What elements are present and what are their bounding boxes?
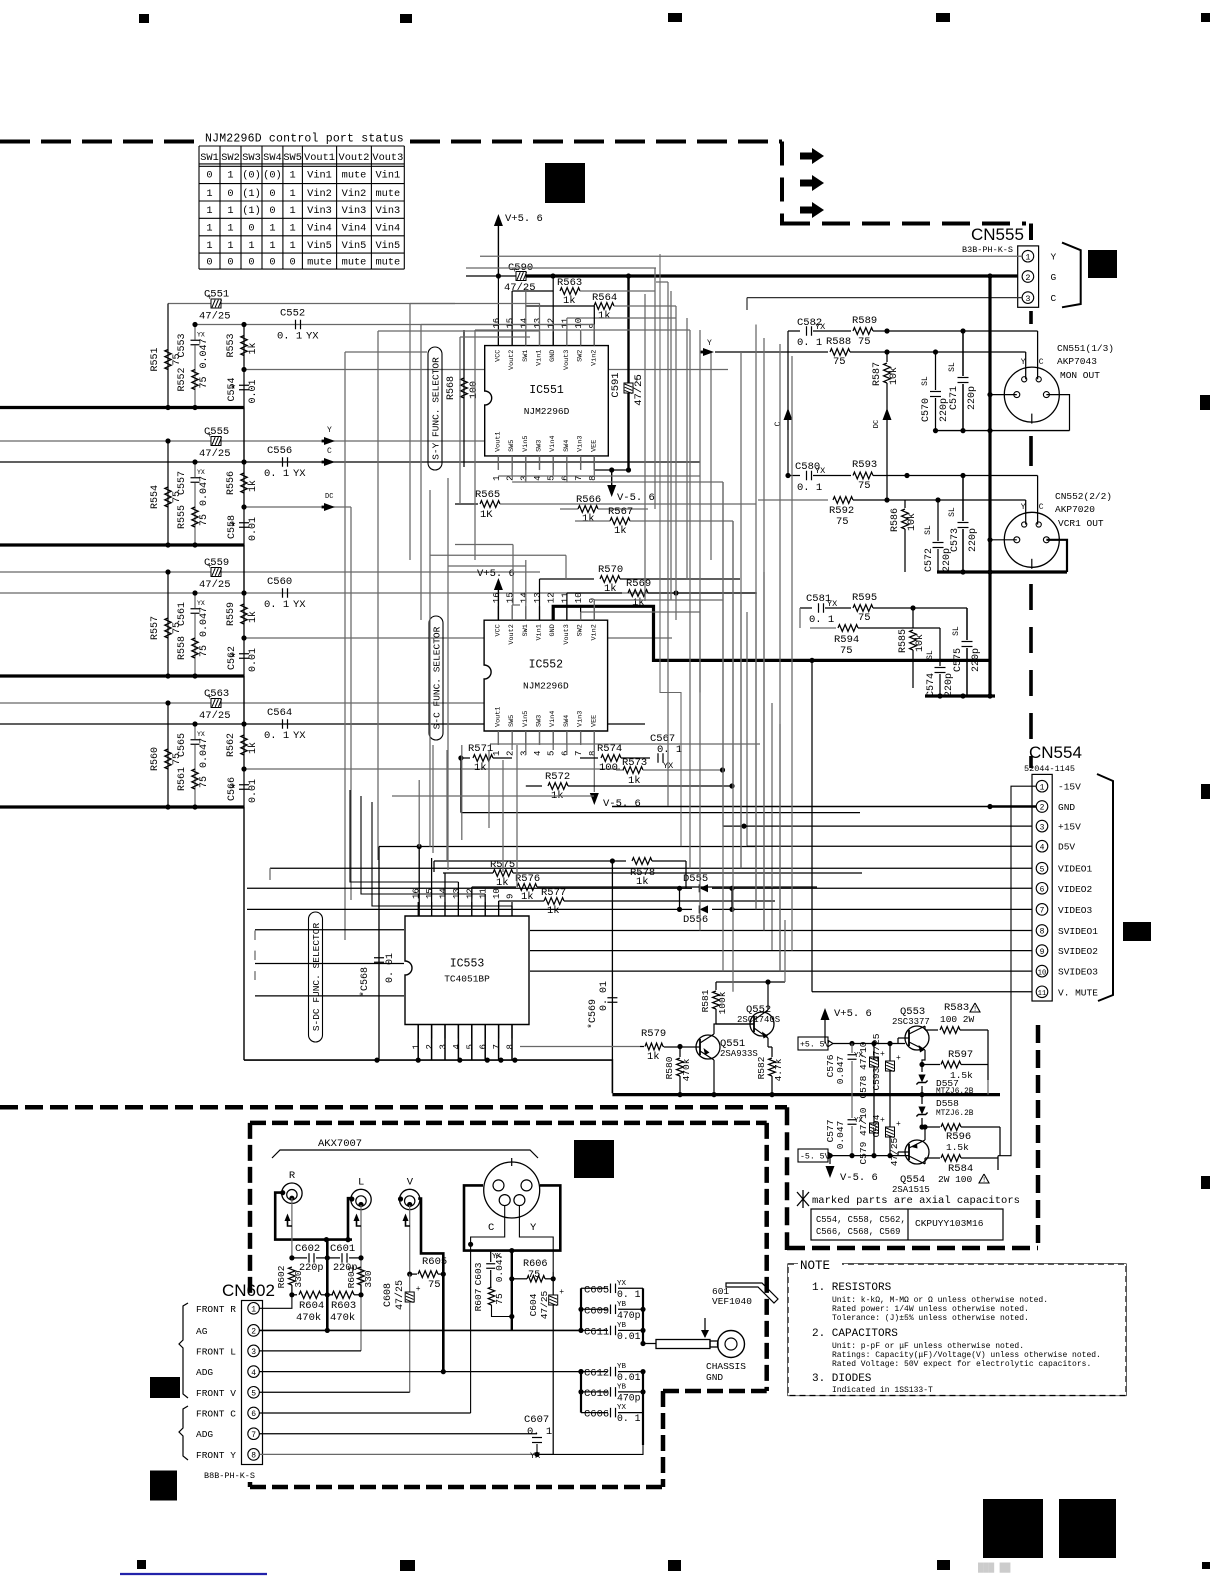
resistor R586: [904, 500, 906, 508]
wire input top y=703: [0, 702, 520, 704]
svg-text:SW5: SW5: [508, 715, 516, 727]
DIN connector CN551 MON OUT: [1004, 367, 1059, 422]
svg-text:0. 1: 0. 1: [617, 1413, 641, 1424]
svg-text:R: R: [289, 1170, 296, 1182]
svg-text:Vout1: Vout1: [494, 707, 502, 727]
svg-text:SW1: SW1: [522, 624, 530, 636]
capacitor C591 (axial electrolytic): [627, 276, 629, 470]
wire input tap y=369.5: [244, 369, 728, 371]
wire vertical x=733: [732, 521, 734, 786]
svg-text:AKP7043: AKP7043: [1057, 356, 1097, 367]
capacitor C578 47/10 (axial): [873, 1044, 875, 1059]
svg-text:R567: R567: [608, 506, 633, 518]
svg-text:0. 1: 0. 1: [797, 337, 822, 349]
warning triangle R584: [979, 1174, 989, 1183]
wire input mid y=324.5: [195, 324, 594, 326]
marked-parts border bottom: [787, 1246, 1038, 1251]
svg-text:8: 8: [506, 1044, 516, 1049]
capacitor C612: [581, 1371, 608, 1373]
CN602 brace lower: [179, 1406, 188, 1460]
svg-text:1: 1: [227, 223, 233, 235]
wire vertical x=711: [710, 352, 712, 560]
table grid: [199, 146, 404, 269]
section border dashed top-left: [0, 140, 203, 144]
svg-text:Y: Y: [707, 339, 712, 348]
svg-text:1: 1: [248, 240, 254, 252]
svg-text:CN554: CN554: [1029, 743, 1082, 762]
svg-text:1k: 1k: [636, 876, 649, 888]
svg-text:75: 75: [199, 776, 210, 788]
resistor R554: [167, 441, 169, 545]
svg-text:75: 75: [494, 1293, 505, 1305]
registration mark: [400, 1560, 415, 1571]
svg-text:Vin4: Vin4: [549, 711, 557, 727]
svg-text:VEE: VEE: [590, 715, 598, 727]
svg-text:R563: R563: [557, 277, 582, 289]
svg-text:YB: YB: [617, 1322, 627, 1330]
svg-text:0. 1: 0. 1: [264, 599, 289, 611]
svg-text:NOTE: NOTE: [800, 1259, 830, 1273]
svg-text:1: 1: [227, 169, 233, 181]
svg-text:0: 0: [269, 205, 275, 217]
svg-text:C562: C562: [227, 646, 238, 670]
capacitor stack C605/C609/C611: [580, 1288, 582, 1330]
svg-text:C574: C574: [926, 673, 937, 697]
wire pin11 riser: [566, 318, 568, 346]
svg-text:1: 1: [227, 240, 233, 252]
svg-text:CN602: CN602: [222, 1281, 275, 1300]
V jack signal: [409, 1205, 411, 1274]
svg-text:3: 3: [439, 1044, 449, 1049]
thick ground vertical x=990: [988, 276, 991, 696]
capacitor C594 47/25 (axial): [889, 1095, 891, 1128]
svg-text:1: 1: [227, 205, 233, 217]
svg-text:C578 47/10: C578 47/10: [858, 1041, 869, 1098]
svg-text:11: 11: [1038, 990, 1046, 998]
wire MON C drop: [1037, 331, 1039, 364]
wire vertical x=756: [755, 593, 757, 909]
svg-text:1k: 1k: [614, 525, 627, 537]
svg-text:Ratings: Capacity(μF)/Voltage(: Ratings: Capacity(μF)/Voltage(V) unless …: [832, 1351, 1101, 1360]
svg-text:mute: mute: [375, 257, 400, 269]
registration mark: [400, 14, 412, 23]
svg-text:DC: DC: [325, 493, 333, 501]
section border dashed mid-page: [0, 1105, 787, 1110]
svg-text:SVIDEO2: SVIDEO2: [1058, 946, 1098, 957]
wire vertical x=747: [746, 612, 748, 846]
power arrow V-5.6 IC551: [611, 470, 613, 488]
svg-text:R597: R597: [948, 1049, 973, 1061]
svg-text:C556: C556: [267, 445, 292, 457]
svg-text:2: 2: [251, 1328, 256, 1337]
svg-text:R580: R580: [664, 1056, 675, 1079]
capacitor C564: [282, 719, 284, 729]
svg-text:10: 10: [574, 592, 584, 603]
svg-text:R602: R602: [276, 1265, 287, 1288]
wire input tap y=638: [244, 637, 672, 639]
svg-text:470p: 470p: [617, 1392, 641, 1403]
svg-text:0: 0: [227, 257, 233, 269]
capacitor C579 47/10 (axial): [873, 1095, 875, 1124]
wire CN602 pin2 AG: [259, 1329, 581, 1331]
CN554 pin 3 +15V: [1036, 820, 1048, 832]
CN602 pin 2 AG: [248, 1325, 260, 1337]
svg-text:10k: 10k: [914, 634, 926, 652]
AKX7007 border bottom: [250, 1485, 663, 1490]
svg-text:C611: C611: [584, 1326, 609, 1338]
wire filt3 mid y=628: [810, 627, 836, 629]
resistor R594: [838, 625, 858, 632]
capacitor C572 220p SL: [937, 500, 939, 541]
wire vertical x=700: [699, 330, 701, 476]
wire vertical x=764: [763, 572, 765, 931]
svg-text:SW4: SW4: [263, 152, 282, 164]
capacitor C580: [806, 471, 808, 481]
svg-text:IC553: IC553: [450, 957, 485, 970]
resistor R572: [526, 785, 542, 787]
svg-text:Vout1: Vout1: [494, 431, 502, 451]
AKX7007 border left: [248, 1123, 253, 1294]
svg-text:1: 1: [1025, 253, 1030, 263]
capacitor C582: [806, 326, 808, 336]
svg-text:75: 75: [858, 480, 871, 492]
svg-text:R607: R607: [473, 1289, 484, 1312]
transistor Q554 2SA1515: [905, 1140, 929, 1164]
IC box: [485, 346, 609, 456]
svg-text:0.047: 0.047: [199, 476, 210, 506]
wire CN554 pin10 SVIDEO3: [255, 995, 404, 997]
svg-text:Y: Y: [1051, 252, 1057, 263]
svg-text:Y: Y: [1021, 358, 1026, 367]
svg-text:4: 4: [251, 1369, 256, 1378]
svg-text:GND: GND: [706, 1372, 723, 1383]
capacitor C571 220p SL: [962, 331, 964, 376]
svg-text:R601: R601: [346, 1265, 357, 1288]
svg-text:CN555: CN555: [971, 225, 1024, 244]
capacitor C601 220p: [327, 1257, 340, 1259]
registration mark: [139, 14, 149, 23]
svg-text:0. 1: 0. 1: [527, 1426, 552, 1438]
registration mark: [150, 1377, 180, 1398]
registration mark: [668, 13, 682, 22]
svg-text:1K: 1K: [480, 509, 493, 521]
svg-text:YX: YX: [815, 466, 825, 476]
capacitor C568 (axial): [378, 847, 380, 1061]
CN554 pin 2 GND: [1036, 801, 1048, 813]
svg-text:0.01: 0.01: [617, 1331, 641, 1342]
CN554 bracket: [1097, 774, 1113, 1001]
registration mark: [1201, 784, 1210, 799]
svg-text:Vin4: Vin4: [375, 223, 400, 235]
svg-text:C608: C608: [383, 1283, 394, 1307]
CN554 pin 7 VIDEO3: [1036, 904, 1048, 916]
svg-text:!: !: [973, 1006, 977, 1014]
wire vertical x=676: [675, 306, 677, 620]
svg-text:2. CAPACITORS: 2. CAPACITORS: [812, 1328, 898, 1340]
wire CN602 pin1: [259, 1295, 292, 1309]
resistor R571: [461, 757, 470, 759]
svg-text:R560: R560: [150, 747, 161, 771]
svg-text:C554: C554: [227, 377, 238, 401]
CN602 pin 1 FRONT R: [248, 1303, 260, 1315]
wire vertical x=780: [779, 724, 781, 971]
wire C607 to right bus: [537, 1445, 643, 1454]
capacitor C610: [581, 1391, 608, 1393]
svg-text:NJM2296D control port status: NJM2296D control port status: [205, 133, 404, 146]
wire CN554 pin7 VIDEO3: [247, 908, 680, 910]
svg-text:Unit: k-kΩ, M-MΩ or Ω unless o: Unit: k-kΩ, M-MΩ or Ω unless otherwise n…: [832, 1296, 1048, 1305]
svg-text:5: 5: [547, 751, 557, 756]
svg-text:470k: 470k: [296, 1312, 321, 1324]
registration mark: [983, 1499, 1043, 1558]
svg-text:R556: R556: [226, 471, 237, 495]
svg-text:VEE: VEE: [590, 440, 598, 452]
svg-text:Vout2: Vout2: [508, 350, 516, 370]
svg-text:R595: R595: [852, 592, 877, 604]
wire CN554 pin3 +15V: [723, 825, 1032, 827]
svg-text:VIDEO2: VIDEO2: [1058, 884, 1093, 895]
wire MON Y drop: [1025, 352, 1027, 364]
resistor R560: [167, 703, 169, 807]
svg-text:330: 330: [363, 1270, 374, 1287]
svg-text:R582: R582: [756, 1056, 767, 1079]
resistor R578: [434, 860, 626, 862]
svg-text:R573: R573: [622, 757, 647, 769]
svg-text:C593 47/25: C593 47/25: [871, 1033, 882, 1090]
svg-text:47/25: 47/25: [199, 311, 231, 323]
resistor R555: [192, 507, 198, 527]
registration mark: [1201, 13, 1210, 22]
svg-text:Vin1: Vin1: [536, 624, 544, 640]
capacitor C609: [581, 1308, 608, 1310]
wire group2 Y riser: [594, 352, 596, 441]
svg-text:(1): (1): [242, 205, 261, 217]
svg-text:C554, C558, C562,: C554, C558, C562,: [816, 1215, 906, 1225]
svg-text:C560: C560: [267, 576, 292, 588]
resistor R593: [853, 472, 873, 479]
svg-text:10: 10: [1038, 969, 1046, 977]
power arrow V-5.6 bottom: [829, 1156, 831, 1164]
svg-text:V-5. 6: V-5. 6: [617, 492, 655, 504]
svg-text:TC4051BP: TC4051BP: [444, 973, 490, 984]
svg-text:CN552(2/2): CN552(2/2): [1055, 491, 1112, 502]
resistor R601 330: [358, 1267, 365, 1285]
wire CN554 pin8 SVIDEO1: [255, 929, 404, 931]
power arrow V+5.6 IC551: [497, 223, 499, 276]
capacitor C603 0.047 YX: [490, 1251, 492, 1262]
svg-text:C565: C565: [177, 733, 188, 757]
power arrow V-5.6 IC552: [593, 731, 595, 792]
svg-text:C561: C561: [177, 602, 188, 626]
svg-text:0.01: 0.01: [248, 517, 259, 541]
svg-text:C: C: [327, 447, 332, 456]
svg-text:16: 16: [492, 592, 502, 603]
capacitor C604 47/25 (axial): [552, 1272, 554, 1295]
capacitor C552: [295, 320, 297, 330]
svg-text:Vout3: Vout3: [563, 350, 571, 370]
svg-text:MON OUT: MON OUT: [1060, 370, 1100, 381]
svg-text:Vin1: Vin1: [536, 350, 544, 366]
section border dashed top-mid: [410, 140, 782, 144]
svg-text:YB: YB: [617, 1383, 627, 1391]
registration mark: [937, 1560, 950, 1570]
svg-text:0. 01: 0. 01: [599, 981, 610, 1011]
wire vertical x=772: [771, 703, 773, 951]
svg-text:15: 15: [506, 592, 516, 603]
svg-text:100k: 100k: [717, 991, 728, 1014]
svg-text:Vin2: Vin2: [590, 350, 598, 366]
svg-text:47/25: 47/25: [199, 448, 231, 460]
svg-text:L: L: [358, 1177, 364, 1189]
svg-text:75: 75: [836, 516, 849, 528]
svg-text:47/25: 47/25: [633, 374, 645, 406]
IC box: [405, 916, 529, 1025]
left long vertical from group1 segments: [243, 408, 245, 463]
svg-text:SW1: SW1: [200, 152, 219, 164]
signal arrow DC up: [883, 408, 892, 420]
svg-text:(0): (0): [263, 169, 282, 181]
zener diode D558 MTZJ6.2B: [921, 1095, 923, 1104]
svg-text:C604: C604: [528, 1293, 539, 1316]
svg-text:Vout1: Vout1: [304, 152, 335, 164]
svg-text:R557: R557: [150, 616, 161, 640]
svg-text:75: 75: [528, 1270, 540, 1281]
svg-text:C573: C573: [950, 528, 961, 552]
svg-text:D556: D556: [683, 914, 708, 926]
svg-text:1: 1: [206, 205, 212, 217]
svg-text:G: G: [1051, 272, 1057, 283]
CN602 pin 6 FRONT C: [248, 1407, 260, 1419]
svg-text:75: 75: [858, 336, 871, 348]
bus input bottom y=676: [0, 674, 244, 677]
svg-text:1: 1: [206, 240, 212, 252]
svg-text:4: 4: [452, 1044, 462, 1049]
svg-text:+: +: [896, 1120, 901, 1129]
svg-text:SW3: SW3: [242, 152, 261, 164]
svg-text:0. 1: 0. 1: [264, 730, 289, 742]
thick bus y=696: [925, 694, 995, 697]
svg-text:R552: R552: [177, 367, 188, 391]
connector CN554 box: [1032, 774, 1052, 1001]
capacitor C561: [194, 593, 196, 608]
wire VCR C line y=475.5: [788, 475, 800, 477]
svg-text:GND: GND: [1058, 802, 1075, 813]
svg-text:YX: YX: [530, 1451, 540, 1461]
svg-text:0: 0: [206, 169, 212, 181]
wire MON C line y=331: [788, 330, 800, 332]
wire vertical x=655: [654, 268, 656, 509]
svg-text:9: 9: [506, 894, 516, 899]
svg-text:1: 1: [412, 1044, 422, 1049]
wire VCR C drop: [1037, 476, 1039, 510]
svg-text:VCR1 OUT: VCR1 OUT: [1058, 518, 1104, 529]
svg-text:R569: R569: [626, 578, 651, 590]
L jack signal: [360, 1205, 362, 1351]
CN554 pin 1 -15V: [1036, 780, 1048, 792]
CN602 pin 7 ADG: [248, 1428, 260, 1440]
CN602 pin 3 FRONT L: [248, 1345, 260, 1357]
R jack signal: [291, 1198, 293, 1258]
svg-text:C: C: [488, 1222, 494, 1234]
resistor R607 75: [490, 1283, 492, 1287]
wire vertical x=687: [686, 318, 688, 580]
svg-text:SW3: SW3: [536, 715, 544, 727]
svg-text:Vin3: Vin3: [342, 205, 367, 217]
svg-text:2SA933S: 2SA933S: [720, 1049, 758, 1059]
capacitor C553: [194, 325, 196, 340]
svg-text:Rated Voltage: 50V expect for: Rated Voltage: 50V expect for electrolyt…: [832, 1360, 1091, 1369]
black arrows top right: [800, 148, 824, 164]
bus input bottom y=407.5: [0, 406, 244, 409]
wire CN554 pin1 -15V: [998, 786, 1036, 1155]
svg-text:0.01: 0.01: [248, 379, 259, 403]
resistor R583 100 2W: [925, 1029, 938, 1031]
ground bus center thick: [326, 1240, 329, 1331]
resistor R570: [540, 578, 595, 580]
svg-text:C601: C601: [330, 1243, 355, 1255]
rail +5.5 y=1043.5: [833, 1043, 905, 1045]
svg-text:SL: SL: [948, 507, 957, 517]
section border dashed corner down: [780, 142, 784, 226]
svg-text:1k: 1k: [598, 310, 611, 322]
resistor R595: [853, 605, 873, 612]
svg-text:47/25: 47/25: [394, 1280, 406, 1310]
wire CN554 pin6 VIDEO2: [247, 887, 680, 889]
wire IC553 top risers: [418, 847, 420, 917]
DIN front upper pins: [493, 1180, 504, 1191]
svg-text:2: 2: [1025, 273, 1030, 283]
wire filt3 risers: [799, 608, 801, 628]
svg-text:75: 75: [199, 645, 210, 657]
svg-text:14: 14: [519, 318, 529, 329]
capacitor C602 220p: [292, 1257, 307, 1259]
svg-text:R603: R603: [331, 1300, 356, 1312]
IC bottom pins 1..8: [417, 1025, 419, 1039]
resistor R592: [833, 497, 853, 504]
svg-text:Vin5: Vin5: [522, 711, 530, 727]
resistor R588: [830, 349, 850, 356]
svg-text:13: 13: [533, 592, 543, 603]
svg-text:VIDEO1: VIDEO1: [1058, 864, 1093, 875]
svg-text:C555: C555: [204, 426, 229, 438]
svg-text:(1): (1): [242, 188, 261, 200]
svg-text:YX: YX: [293, 468, 306, 480]
bus input bottom y=545: [0, 543, 244, 546]
svg-text:GND: GND: [549, 350, 557, 362]
IC box: [484, 620, 607, 731]
svg-text:75: 75: [199, 376, 210, 388]
svg-text:Vin3: Vin3: [307, 205, 332, 217]
resistor R589: [853, 328, 873, 335]
wire R579 feed: [520, 1046, 640, 1048]
wire pin15 up: [511, 291, 513, 346]
svg-text:S-DC FUNC. SELECTOR: S-DC FUNC. SELECTOR: [311, 923, 322, 1032]
svg-text:R593: R593: [852, 459, 877, 471]
svg-text:Y: Y: [1021, 503, 1026, 512]
svg-text:Vin2: Vin2: [307, 188, 332, 200]
svg-text:SL: SL: [952, 626, 961, 636]
svg-text:11: 11: [560, 318, 570, 329]
svg-text:Y: Y: [327, 426, 332, 435]
svg-text:B8B-PH-K-S: B8B-PH-K-S: [204, 1471, 255, 1481]
marked-parts border right: [1036, 1025, 1041, 1250]
thick VCR bottom bus: [937, 570, 1067, 573]
svg-text:1k: 1k: [582, 513, 595, 525]
svg-text:R604: R604: [299, 1300, 324, 1312]
svg-text:2W 100: 2W 100: [938, 1174, 973, 1185]
svg-text:0. 1: 0. 1: [617, 1289, 641, 1300]
registration mark: [1200, 395, 1210, 410]
